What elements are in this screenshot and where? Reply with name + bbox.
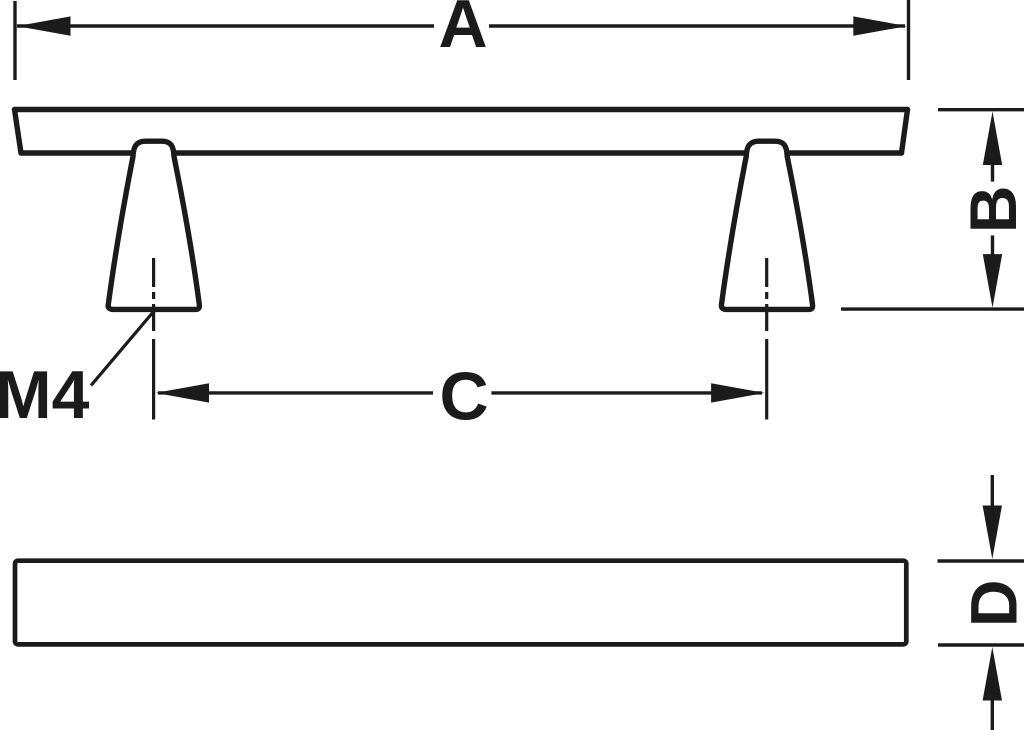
svg-text:M4: M4	[0, 357, 90, 433]
dim A right extension tick	[907, 0, 910, 80]
dim D upper arrow tail	[991, 475, 994, 508]
left leg extension line for dim C	[152, 339, 155, 420]
svg-text:B: B	[956, 185, 1024, 233]
dim C left arrowhead	[156, 383, 209, 402]
handle bar top edge	[15, 107, 908, 112]
M4 leader line	[91, 312, 154, 386]
dim B top tick	[938, 108, 1024, 111]
dim A line left segment	[17, 24, 434, 27]
handle bar left end slant	[15, 110, 22, 154]
svg-text:A: A	[438, 0, 487, 62]
dim C line left segment	[158, 391, 433, 394]
handle bar bottom edge left segment	[21, 150, 136, 155]
dim D lower arrowhead	[983, 647, 1002, 701]
left leg centerline dash-dot	[152, 258, 155, 331]
dim D top tick	[938, 559, 1024, 562]
handle bar right end slant	[902, 110, 908, 154]
right leg centerline dash-dot	[765, 258, 768, 331]
handle bar bottom edge right segment	[784, 150, 902, 155]
dim B bottom tick	[841, 307, 1024, 310]
svg-text:C: C	[439, 358, 488, 434]
dim D bottom tick	[938, 643, 1024, 646]
handle bar bottom edge middle segment	[171, 150, 749, 155]
dim B lower arrowhead	[983, 254, 1002, 308]
dim A line right segment	[489, 24, 905, 27]
dim B lower arrow tail	[991, 235, 994, 255]
right leg extension line for dim C	[765, 339, 768, 420]
right leg outline	[721, 141, 812, 309]
dim B upper arrowhead	[983, 112, 1002, 166]
dim C line right segment	[491, 391, 762, 394]
dim D upper arrowhead	[983, 506, 1002, 560]
dim B upper arrow tail	[991, 163, 994, 182]
dim C right arrowhead	[711, 383, 765, 402]
side view bar rectangle	[15, 561, 906, 645]
svg-text:D: D	[956, 579, 1024, 627]
dim D lower arrow tail	[991, 698, 994, 730]
left leg outline	[108, 141, 199, 309]
dim A left extension tick	[13, 1, 16, 80]
dim A right arrowhead	[853, 16, 907, 35]
dim A left arrowhead	[17, 16, 71, 35]
